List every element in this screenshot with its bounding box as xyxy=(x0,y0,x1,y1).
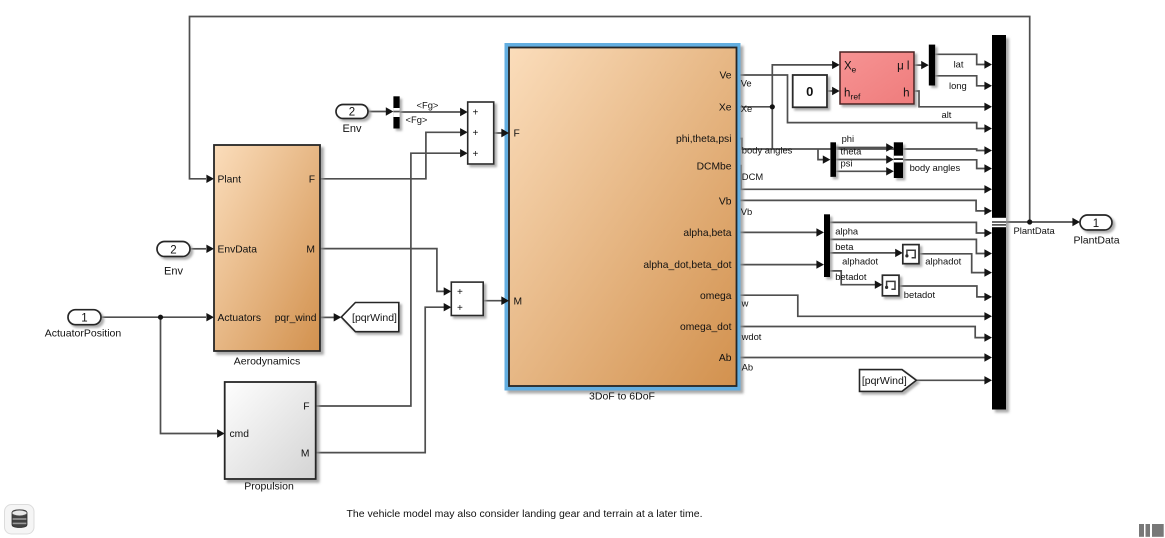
svg-text:w: w xyxy=(741,297,749,308)
svg-text:M: M xyxy=(306,244,315,255)
svg-text:ref: ref xyxy=(851,92,862,102)
svg-text:[pqrWind]: [pqrWind] xyxy=(862,375,907,387)
svg-text:PlantData: PlantData xyxy=(1014,225,1056,236)
svg-text:EnvData: EnvData xyxy=(218,244,258,255)
svg-text:+: + xyxy=(473,149,479,160)
svg-text:+: + xyxy=(457,303,463,314)
svg-text:Ve: Ve xyxy=(719,71,731,82)
svg-text:betadot: betadot xyxy=(904,289,936,300)
svg-text:phi: phi xyxy=(842,133,855,144)
svg-text:Xe: Xe xyxy=(719,103,732,114)
svg-text:1: 1 xyxy=(81,313,87,325)
svg-text:body angles: body angles xyxy=(910,162,961,173)
svg-text:lat: lat xyxy=(954,58,964,69)
svg-text:Plant: Plant xyxy=(218,174,242,185)
svg-text:betadot: betadot xyxy=(835,271,867,282)
svg-text:The vehicle model may also con: The vehicle model may also consider land… xyxy=(347,508,703,520)
svg-text:long: long xyxy=(949,80,967,91)
svg-text:Propulsion: Propulsion xyxy=(244,481,294,493)
svg-text:wdot: wdot xyxy=(741,331,762,342)
svg-text:<Fg>: <Fg> xyxy=(417,100,439,111)
svg-text:Actuators: Actuators xyxy=(218,313,262,324)
svg-text:Aerodynamics: Aerodynamics xyxy=(234,355,301,367)
svg-text:[pqrWind]: [pqrWind] xyxy=(352,312,397,324)
svg-text:Env: Env xyxy=(164,266,183,278)
svg-text:theta: theta xyxy=(841,145,863,156)
svg-text:h: h xyxy=(844,88,850,100)
svg-text:omega_dot: omega_dot xyxy=(680,322,732,333)
svg-text:Ab: Ab xyxy=(719,353,732,364)
svg-text:PlantData: PlantData xyxy=(1073,234,1119,246)
svg-text:+: + xyxy=(473,108,479,119)
svg-text:phi,theta,psi: phi,theta,psi xyxy=(676,134,732,145)
svg-text:psi: psi xyxy=(841,158,853,169)
svg-text:Ve: Ve xyxy=(741,77,752,88)
svg-text:h: h xyxy=(903,88,909,100)
svg-text:F: F xyxy=(514,129,520,140)
svg-text:body angles: body angles xyxy=(742,144,793,155)
svg-text:pqr_wind: pqr_wind xyxy=(275,313,317,324)
svg-text:0: 0 xyxy=(806,84,813,99)
svg-text:cmd: cmd xyxy=(230,429,250,440)
svg-text:<Fg>: <Fg> xyxy=(406,114,428,125)
svg-text:alphadot: alphadot xyxy=(842,256,878,267)
svg-text:alpha: alpha xyxy=(835,226,859,237)
svg-text:M: M xyxy=(514,296,523,307)
svg-text:Vb: Vb xyxy=(719,196,732,207)
svg-text:DCM: DCM xyxy=(742,171,764,182)
svg-text:Ab: Ab xyxy=(742,362,753,373)
svg-text:Vb: Vb xyxy=(741,206,752,217)
svg-text:beta: beta xyxy=(835,241,854,252)
svg-text:Xe: Xe xyxy=(741,103,752,114)
svg-text:alphadot: alphadot xyxy=(925,256,961,267)
svg-text:alt: alt xyxy=(942,109,952,120)
svg-text:2: 2 xyxy=(349,107,355,119)
svg-text:Env: Env xyxy=(343,123,362,135)
svg-text:omega: omega xyxy=(700,291,732,302)
svg-text:3DoF to 6DoF: 3DoF to 6DoF xyxy=(589,391,655,403)
svg-text:+: + xyxy=(473,128,479,139)
svg-text:F: F xyxy=(303,402,309,413)
svg-text:1: 1 xyxy=(1093,218,1099,230)
svg-text:ActuatorPosition: ActuatorPosition xyxy=(45,327,122,339)
svg-text:alpha,beta: alpha,beta xyxy=(683,228,731,239)
svg-text:DCMbe: DCMbe xyxy=(697,161,732,172)
svg-text:alpha_dot,beta_dot: alpha_dot,beta_dot xyxy=(643,260,731,271)
svg-text:+: + xyxy=(457,287,463,298)
svg-text:F: F xyxy=(309,174,315,185)
svg-text:M: M xyxy=(301,448,310,459)
svg-text:e: e xyxy=(852,65,857,75)
svg-text:μ l: μ l xyxy=(897,61,909,73)
svg-text:2: 2 xyxy=(170,244,176,256)
